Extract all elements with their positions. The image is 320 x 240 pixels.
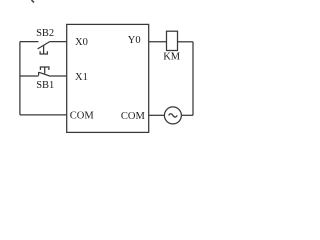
wire SB1 left segment	[20, 75, 39, 77]
wire SB1 to X1	[51, 75, 67, 77]
svg-text:KM: KM	[163, 51, 181, 62]
wire left rail	[19, 42, 21, 115]
svg-text:SB1: SB1	[36, 80, 54, 91]
svg-text:Y0: Y0	[128, 35, 141, 46]
pushbutton SB2 (NC)	[38, 41, 51, 54]
wire SB2 left segment	[20, 41, 39, 43]
wire KM to right rail	[178, 41, 194, 43]
coil KM	[167, 31, 178, 50]
wire bottom to COM	[20, 114, 67, 116]
wire right rail	[192, 42, 194, 116]
svg-text:X1: X1	[75, 72, 88, 83]
wire COM to AC source	[149, 114, 165, 116]
svg-text:COM: COM	[121, 111, 146, 122]
svg-text:X0: X0	[75, 37, 88, 48]
PLC box U1	[67, 24, 149, 132]
AC source G1	[164, 107, 181, 124]
wire SB2 to X0	[50, 41, 66, 43]
stray mark top	[32, 0, 35, 3]
wire Y0 to KM	[149, 41, 167, 43]
svg-text:SB2: SB2	[36, 28, 54, 39]
wire AC source to right rail	[181, 114, 193, 116]
svg-text:COM: COM	[70, 111, 95, 122]
pushbutton SB1 (NO)	[39, 67, 51, 76]
